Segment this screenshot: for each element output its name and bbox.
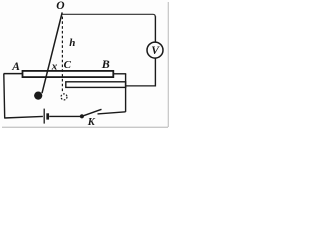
pendulum ball (solid) [34,92,42,100]
wire: bottom, left rail to battery [4,116,43,118]
svg-text:K: K [87,117,96,128]
svg-text:C: C [64,59,72,71]
wire: right rail below voltmeter [154,58,156,86]
svg-text:V: V [151,45,160,57]
wire: top from pivot O to top-right corner [62,14,155,17]
battery [43,109,45,124]
pendulum ball at lowest point (dashed outline) [61,94,67,100]
svg-text:B: B [101,57,110,71]
wire: right inner rail from B stub down to bottom wire [125,74,127,112]
wire: left rail [3,74,6,118]
svg-text:O: O [56,0,64,12]
wire: voltmeter branch horizontal [125,85,155,87]
switch K pivot junction dot [80,114,84,118]
dashed vertical line O to C [61,17,63,94]
resistor box: slide wire AB [23,71,114,77]
wire: lead from left rail to A end of slide wire [4,73,23,75]
wire: right rail above voltmeter [154,16,156,42]
voltmeter V [147,42,163,58]
wire: switch fixed contact to bottom-right corner [98,112,126,114]
svg-text:x: x [51,61,58,73]
switch K lever (open) [82,109,101,116]
svg-text:A: A [11,61,20,73]
wire: stub from B end of slide wire [113,73,126,75]
resistor box: lower protective resistor [66,82,126,88]
pendulum string [42,12,62,93]
wire: battery to switch pivot [49,115,82,117]
svg-text:h: h [69,37,75,49]
